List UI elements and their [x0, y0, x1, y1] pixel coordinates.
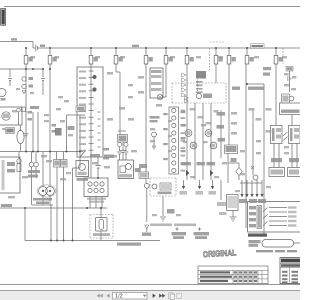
svg-text:ORIGINAL: ORIGINAL: [203, 247, 237, 259]
svg-text:1/2: 1/2: [115, 293, 123, 299]
